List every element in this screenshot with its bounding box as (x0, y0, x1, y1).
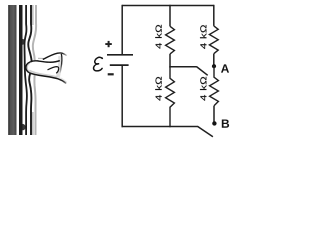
wire: middle branch top lead (169, 5, 171, 27)
wire: top rail (122, 5, 214, 7)
thumb and hand fill (26, 53, 70, 85)
hand right-side gray shading (58, 56, 61, 78)
wire: right branch top lead (213, 5, 215, 26)
resistor R1 (middle top, 4 kOhm) (166, 26, 175, 54)
resistor R2 (middle bottom, 4 kOhm) (166, 67, 175, 127)
label R3 value 4 kOhm (200, 25, 206, 49)
wire: left branch lower lead (121, 65, 123, 127)
gray ledge line left of hand arc (38, 57, 45, 59)
battery EMF short plate (110, 64, 129, 66)
thumb knuckle crease (48, 67, 59, 74)
battery minus label (108, 73, 114, 75)
node A label (221, 64, 229, 72)
conductor strip bar (19, 5, 23, 135)
wire: right branch lead into node A (213, 54, 215, 66)
lower contact bump (23, 124, 26, 130)
wire: middle branch mid lead to node M1 (169, 54, 171, 68)
thumb tip inner shading (27, 63, 30, 72)
wire: node M1 horizontal lead (169, 66, 197, 68)
EMF symbol script-E (94, 57, 103, 71)
membrane outer gray shadow top (32, 5, 34, 25)
wall plate bar (left thick gray bar) (8, 5, 16, 135)
node B label (222, 119, 229, 127)
label R1 value 4 kOhm (155, 25, 161, 49)
wire: left branch upper lead (121, 5, 123, 54)
battery EMF long plate (107, 54, 133, 56)
membrane outer line (28, 5, 31, 135)
thumb top edge outline (30, 61, 60, 63)
thumb bottom edge outline (fading right) (29, 73, 66, 84)
hand lower-right faint shading (60, 79, 66, 83)
wire: bottom rail (122, 126, 198, 128)
switch arm (bottom, to node B, open) (197, 126, 213, 136)
membrane outer gray shadow bottom (32, 112, 34, 135)
upper contact bump (22, 39, 25, 45)
switch arm (top, to node A, open) (197, 67, 208, 76)
backing layer line (33, 5, 36, 135)
membrane inner line (24, 5, 26, 135)
thumb inner bottom shading (30, 71, 58, 78)
thumb tip outline (26, 62, 30, 73)
node B junction dot (212, 121, 216, 125)
node A junction dot (212, 64, 216, 68)
wire: right branch lead into node B (213, 106, 215, 124)
label R4 value 4 kOhm (200, 77, 206, 101)
resistor R4 (right bottom, 4 kOhm) (210, 66, 219, 106)
thumb right fold outline (fading down) (60, 54, 62, 73)
battery plus label (105, 41, 112, 47)
resistor R3 (right top, 4 kOhm) (209, 26, 218, 54)
label R2 value 4 kOhm (155, 77, 161, 101)
hand edge arc (fading right) (43, 53, 67, 60)
